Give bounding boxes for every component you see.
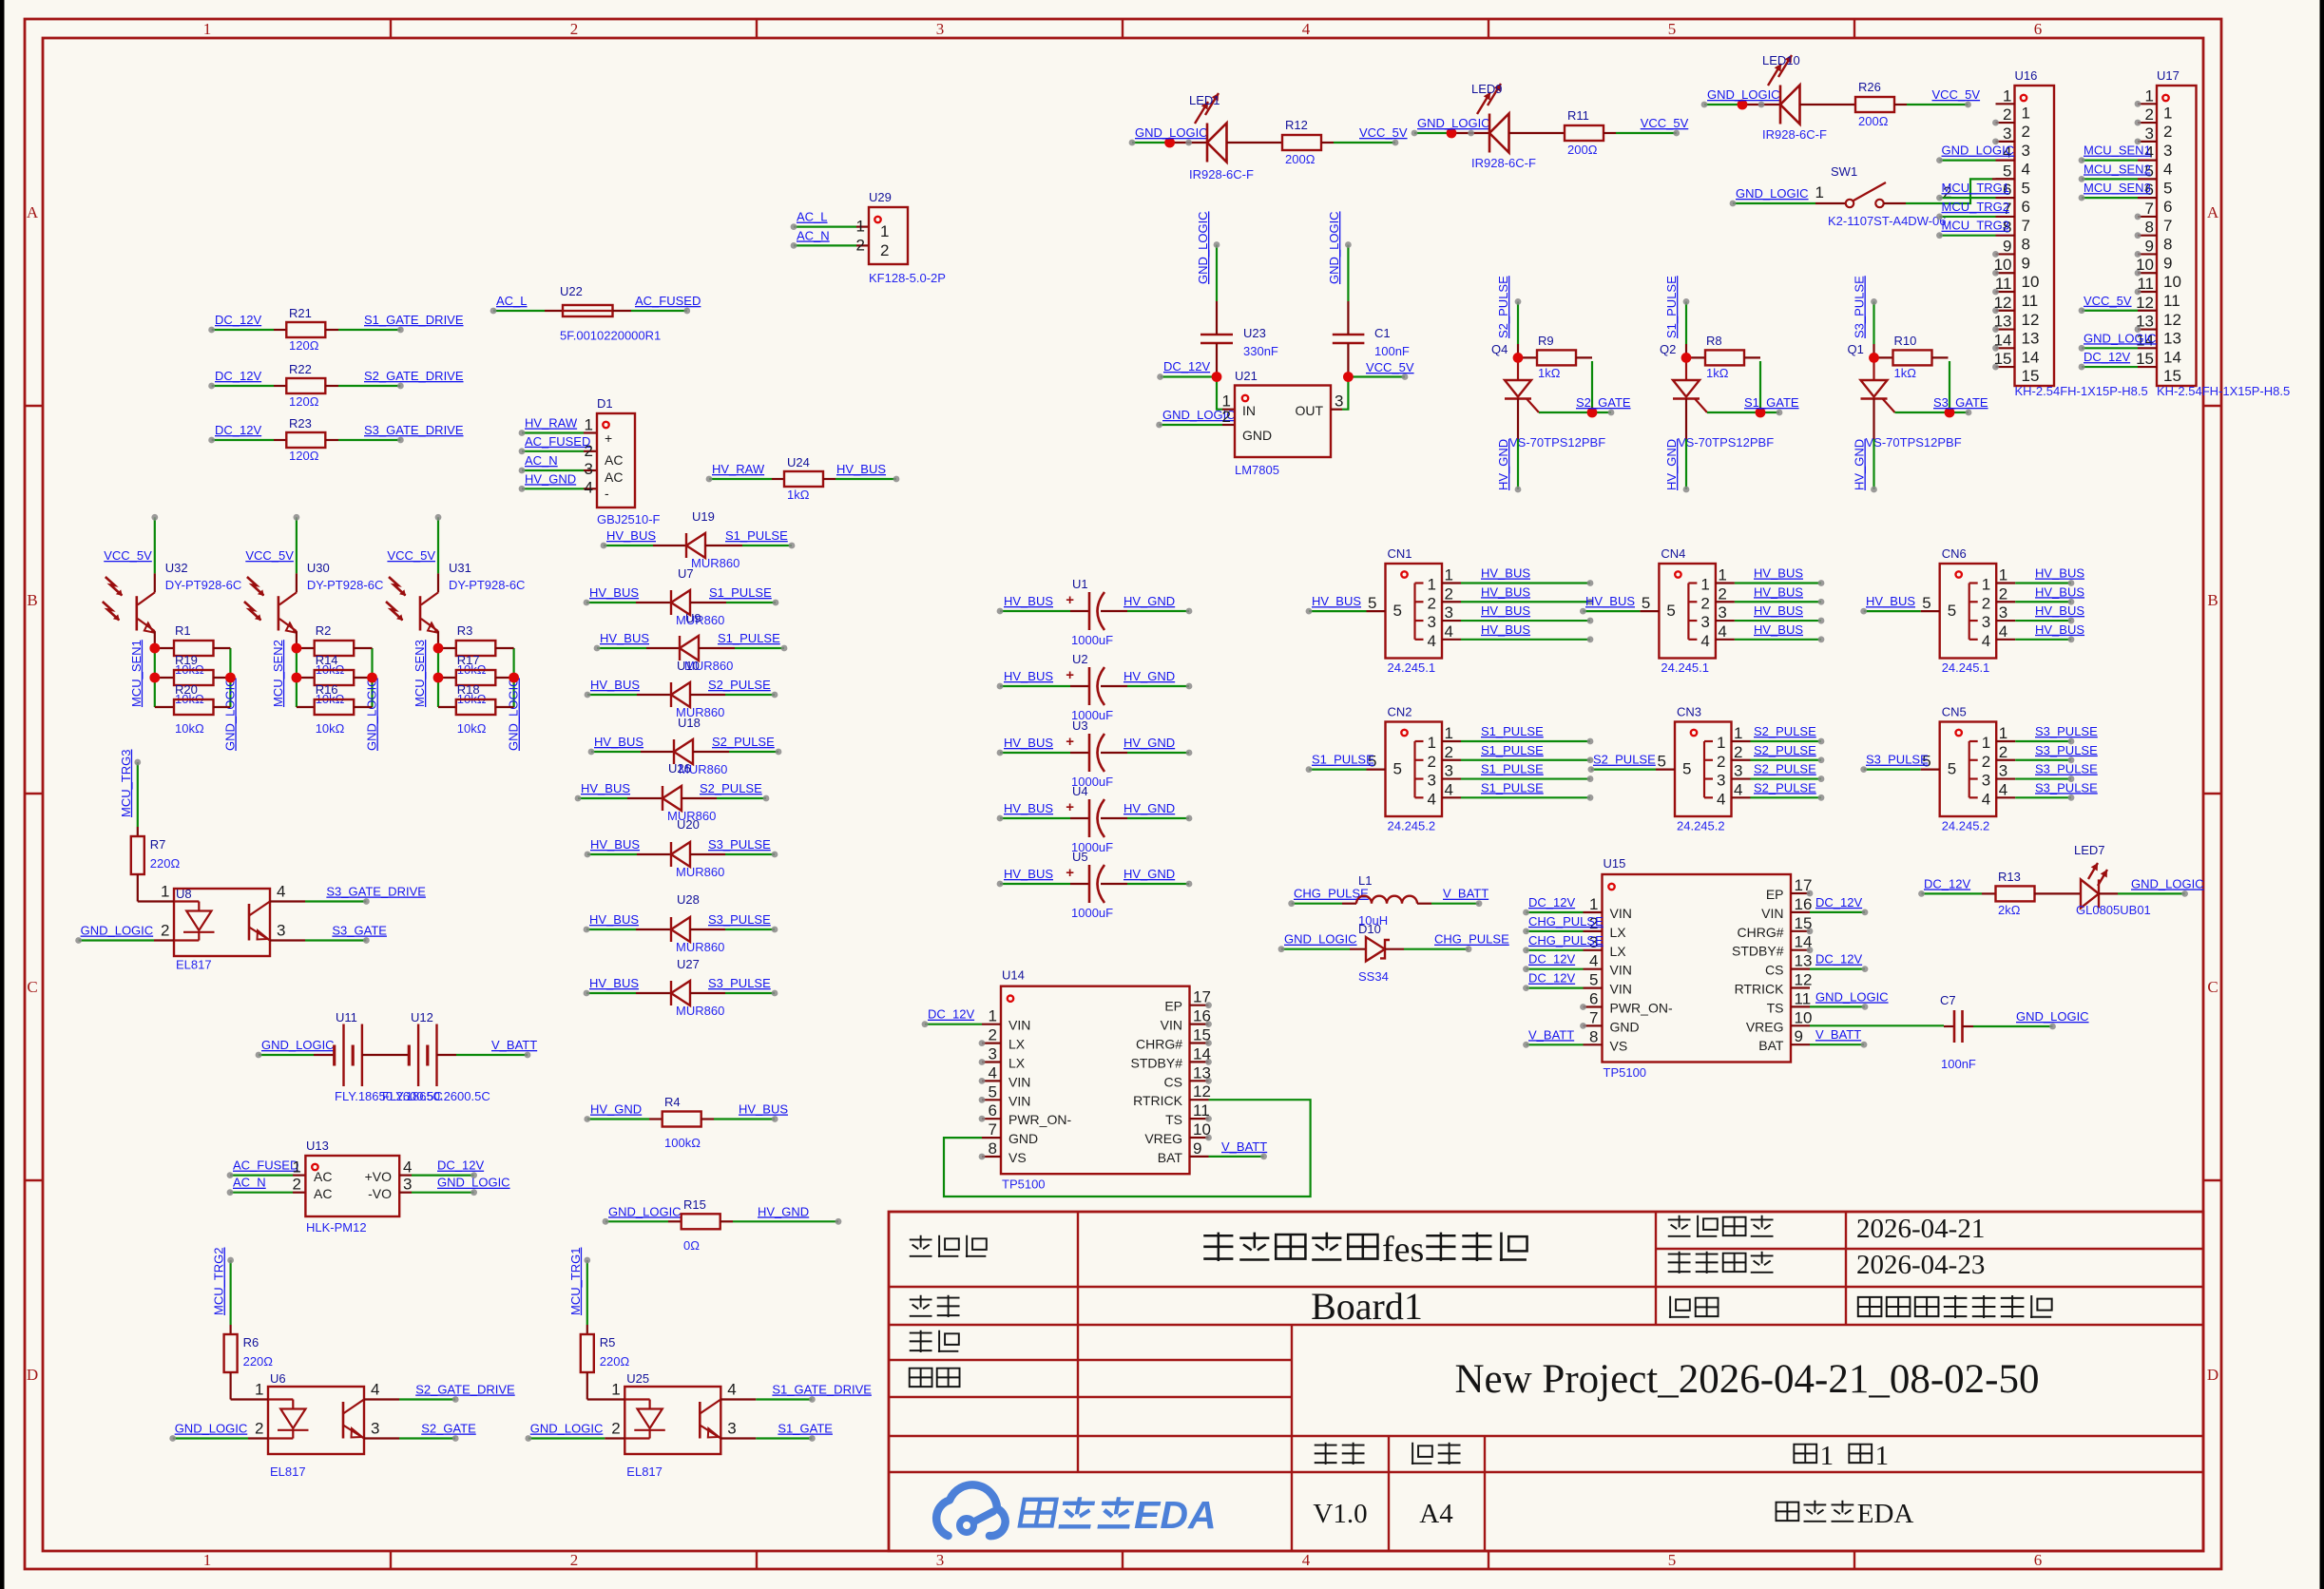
diode U28 [671, 892, 724, 954]
wire CN1 pin 1 to HV_BUS [1461, 580, 1593, 586]
pin 16 stub [1190, 1023, 1209, 1024]
svg-text:GND_LOGIC: GND_LOGIC [365, 678, 379, 751]
svg-text:HV_GND: HV_GND [525, 471, 576, 486]
svg-text:HV_BUS: HV_BUS [589, 585, 639, 600]
junction MCU_SEN2 at R14 [292, 673, 302, 683]
svg-text:GND_LOGIC: GND_LOGIC [2131, 876, 2204, 890]
svg-text:KH-2.54FH-1X15P-H8.5: KH-2.54FH-1X15P-H8.5 [2157, 384, 2290, 398]
svg-text:U7: U7 [678, 566, 694, 581]
svg-text:220Ω: 220Ω [150, 856, 181, 871]
svg-text:V1.0: V1.0 [1313, 1499, 1367, 1529]
svg-text:3: 3 [2145, 124, 2154, 143]
AC-DC module U13 HLK-PM12 [293, 1139, 413, 1235]
junction MCU_SEN1 at R1 [149, 643, 160, 654]
svg-text:R22: R22 [289, 362, 312, 376]
wire DC_12V to U14 pin 1 [922, 1021, 982, 1027]
svg-text:4: 4 [2022, 161, 2030, 179]
pin 3 stub [1442, 620, 1461, 622]
wire GND_LOGIC to SW1 pin 1 [1730, 201, 1845, 207]
svg-text:3: 3 [277, 922, 285, 940]
svg-text:DC_12V: DC_12V [1528, 952, 1575, 967]
logo JLCEDA text [1020, 1500, 1056, 1526]
pin 12 stub [1996, 310, 2015, 312]
wire U27 to S3_PULSE [690, 990, 778, 997]
svg-text:12: 12 [2022, 311, 2040, 329]
svg-text:CHG_PULSE: CHG_PULSE [1528, 914, 1604, 929]
svg-text:GND_LOGIC: GND_LOGIC [1942, 144, 2015, 158]
pin 2 stub [1996, 601, 2015, 603]
svg-text:TP5100: TP5100 [1002, 1177, 1046, 1192]
wire DC_12V node into U21 pin 1 [1157, 364, 1235, 410]
svg-text:24.245.2: 24.245.2 [1677, 819, 1725, 833]
svg-text:5: 5 [1668, 1551, 1677, 1569]
wire DC_12V to R21 [208, 327, 286, 334]
svg-text:3: 3 [727, 1420, 736, 1438]
wire GND_LOGIC bus [229, 648, 231, 707]
svg-text:3: 3 [1982, 613, 1990, 631]
svg-text:STDBY#: STDBY# [1732, 944, 1784, 959]
connector CN5 24.245.2 [1921, 705, 2016, 833]
wire HV_BUS to U3 [997, 750, 1089, 756]
svg-text:10: 10 [2022, 273, 2040, 291]
title block grid [889, 1212, 2203, 1551]
svg-text:3: 3 [1717, 772, 1725, 790]
svg-text:1: 1 [1445, 566, 1453, 584]
svg-text:13: 13 [1193, 1063, 1211, 1082]
battery U11 FLY.18650.2600.5C [335, 1010, 443, 1103]
svg-text:S2_PULSE: S2_PULSE [1754, 743, 1816, 757]
wire U14 pin 7 GND loop to pin 12 RTRICK [944, 1100, 1311, 1197]
svg-text:GL0805UB01: GL0805UB01 [2076, 903, 2151, 917]
pin 5 stub [1640, 610, 1659, 612]
svg-text:U2: U2 [1072, 652, 1088, 666]
svg-text:HV_BUS: HV_BUS [589, 976, 639, 990]
wire R11 to VCC_5V [1604, 130, 1680, 137]
svg-text:DC_12V: DC_12V [215, 369, 261, 383]
wire R12 to VCC_5V [1321, 140, 1398, 146]
wire HV_BUS to U20 [585, 852, 671, 858]
resistor R19 10k [155, 653, 231, 706]
svg-text:4: 4 [1700, 632, 1709, 650]
svg-text:EL817: EL817 [626, 1465, 663, 1479]
resistor R5 220 [581, 1334, 630, 1372]
svg-text:AC_FUSED: AC_FUSED [233, 1158, 298, 1173]
svg-text:12: 12 [1193, 1082, 1211, 1101]
svg-text:LX: LX [1610, 925, 1627, 940]
svg-text:R26: R26 [1858, 80, 1881, 94]
svg-text:EL817: EL817 [270, 1465, 306, 1479]
svg-text:V_BATT: V_BATT [1221, 1139, 1267, 1154]
diode U27 [671, 957, 724, 1018]
svg-text:5: 5 [2163, 179, 2172, 197]
svg-text:LED1: LED1 [1189, 93, 1220, 107]
svg-text:2: 2 [1982, 594, 1990, 612]
svg-text:6: 6 [1589, 990, 1598, 1008]
pin 7 stub [2138, 216, 2157, 218]
svg-text:1: 1 [2163, 104, 2172, 122]
svg-text:VIN: VIN [1610, 963, 1632, 978]
svg-text:S3_PULSE: S3_PULSE [2035, 762, 2098, 776]
svg-text:S1_PULSE: S1_PULSE [1312, 753, 1374, 767]
wire VCC_5V to U17 pin 12 [2079, 307, 2138, 314]
svg-text:11: 11 [2163, 292, 2180, 310]
svg-text:HV_BUS: HV_BUS [1481, 603, 1530, 618]
wire U6 pin 4 to S2_GATE_DRIVE [364, 1396, 459, 1403]
wire R13 to LED7 [2034, 892, 2081, 894]
svg-text:100kΩ: 100kΩ [664, 1136, 701, 1150]
wire U3 to HV_GND [1101, 750, 1192, 756]
svg-text:U16: U16 [2015, 68, 2038, 83]
resistor R18 10k [438, 682, 514, 736]
title block label version [1315, 1443, 1337, 1465]
svg-text:U32: U32 [165, 561, 188, 575]
svg-text:2: 2 [1428, 753, 1436, 771]
junction S3_PULSE at Q1 [1869, 353, 1879, 363]
svg-text:U31: U31 [449, 561, 471, 575]
wire DC_12V to U17 pin 15 [2079, 364, 2138, 371]
junction GND_LOGIC [1447, 128, 1457, 139]
svg-text:VCC_5V: VCC_5V [1932, 87, 1981, 102]
wire U22 to AC_FUSED [613, 308, 691, 315]
svg-text:3: 3 [936, 1551, 945, 1569]
svg-text:5: 5 [1642, 594, 1650, 612]
wire HV_BUS to U18 [588, 749, 674, 756]
title block label board [910, 1295, 932, 1316]
svg-text:OUT: OUT [1295, 403, 1323, 418]
pin 13 stub [1996, 328, 2015, 330]
svg-text:U21: U21 [1235, 369, 1258, 383]
pin 16 stub [1791, 911, 1810, 913]
resistor R11 200 [1565, 108, 1604, 157]
capacitor U2 polarized 1000uF [1066, 652, 1113, 722]
svg-text:HV_RAW: HV_RAW [525, 416, 578, 431]
wire CN3 pin 2 to S2_PULSE [1751, 756, 1825, 763]
svg-text:RTRICK: RTRICK [1133, 1093, 1183, 1108]
wire GND_LOGIC to LED10 [1701, 102, 1780, 108]
svg-text:14: 14 [1994, 331, 2012, 349]
svg-text:24.245.1: 24.245.1 [1661, 660, 1709, 675]
svg-text:2: 2 [1445, 743, 1453, 761]
svg-text:GND: GND [1008, 1131, 1038, 1146]
pin 1 stub [1716, 582, 1735, 584]
svg-text:DC_12V: DC_12V [215, 313, 261, 327]
wire VCC_5V to U30 [294, 514, 300, 574]
svg-text:S2_PULSE: S2_PULSE [708, 678, 771, 692]
wire R6 to optocoupler pin 1 [231, 1372, 268, 1400]
wire GND_LOGIC to LED1 [1129, 140, 1207, 146]
svg-text:K2-1107ST-A4DW-06: K2-1107ST-A4DW-06 [1828, 214, 1947, 228]
svg-text:2: 2 [1222, 408, 1231, 426]
svg-text:8: 8 [2163, 236, 2172, 254]
pin 3 stub [1442, 777, 1461, 779]
svg-text:5: 5 [1668, 20, 1677, 38]
svg-text:V_BATT: V_BATT [1443, 887, 1489, 901]
svg-text:AC_N: AC_N [797, 228, 830, 242]
svg-text:4: 4 [1445, 780, 1453, 798]
wire AC_N to D1 pin 3 [519, 468, 597, 474]
pin 11 stub [1996, 291, 2015, 293]
svg-text:10: 10 [1795, 1008, 1813, 1026]
svg-text:DC_12V: DC_12V [1924, 876, 1970, 890]
svg-text:U25: U25 [626, 1371, 649, 1386]
svg-text:R17: R17 [457, 653, 480, 667]
svg-text:VIN: VIN [1008, 1018, 1030, 1033]
column numbers [203, 20, 2043, 1569]
svg-text:MCU_SEN2: MCU_SEN2 [271, 640, 285, 707]
svg-text:C: C [27, 978, 37, 996]
junction GND_LOGIC [509, 673, 519, 683]
svg-text:S2_PULSE: S2_PULSE [1593, 753, 1656, 767]
svg-text:HV_BUS: HV_BUS [2035, 622, 2084, 637]
svg-text:MUR860: MUR860 [691, 556, 739, 570]
svg-text:HV_BUS: HV_BUS [1754, 603, 1803, 618]
pin 2 stub [2138, 122, 2157, 124]
wire U15 pin 9 to V_BATT [1810, 1042, 1867, 1048]
svg-text:U20: U20 [677, 817, 700, 832]
wire U12 to V_BATT [437, 1052, 531, 1059]
svg-text:GND_LOGIC: GND_LOGIC [261, 1038, 335, 1052]
wire DC_12V to R23 [208, 437, 286, 444]
svg-text:MUR860: MUR860 [676, 940, 724, 954]
pin 8 stub [2138, 235, 2157, 237]
resistor R9 1k [1518, 334, 1592, 380]
wire AC_L to U29 pin 1 [791, 223, 869, 230]
svg-text:6: 6 [2034, 1551, 2043, 1569]
svg-text:HV_BUS: HV_BUS [600, 631, 649, 645]
resistor R26 200 [1855, 80, 1894, 128]
pin 1 stub [1996, 103, 2015, 105]
svg-text:5: 5 [989, 1082, 997, 1101]
svg-text:HV_GND: HV_GND [1124, 669, 1175, 683]
pin 1 stub [1732, 740, 1751, 742]
wire R8 to S1_GATE [1707, 361, 1782, 415]
wire D10 to CHG_PULSE [1385, 946, 1471, 952]
wire HV_BUS to U1 [997, 608, 1089, 615]
capacitor C1 100nF [1333, 326, 1410, 377]
connector U29 [856, 190, 946, 285]
svg-text:HV_BUS: HV_BUS [1754, 566, 1803, 581]
svg-text:4: 4 [1428, 632, 1436, 650]
wire CN5 pin 2 to S3_PULSE [2015, 756, 2074, 763]
pin 3 stub [1996, 141, 2015, 143]
svg-text:15: 15 [2163, 367, 2181, 385]
wire R10 to S3_GATE [1895, 361, 1972, 415]
svg-text:TS: TS [1165, 1112, 1182, 1127]
svg-text:U4: U4 [1072, 784, 1088, 798]
wire U21 pin 3 to VCC_5V node [1331, 377, 1348, 410]
pin 6 stub [1584, 1005, 1603, 1007]
wire U18 to S2_PULSE [693, 749, 781, 756]
svg-text:R9: R9 [1538, 334, 1554, 348]
wire MCU_SEN3 bus [437, 648, 439, 707]
wire U15 pin 11 to GND_LOGIC [1810, 1004, 1868, 1010]
svg-text:S3_PULSE: S3_PULSE [708, 912, 771, 927]
svg-text:HV_GND: HV_GND [590, 1102, 642, 1117]
pin 1 stub [1442, 740, 1461, 742]
svg-text:S2_GATE_DRIVE: S2_GATE_DRIVE [364, 369, 464, 383]
svg-text:1kΩ: 1kΩ [1894, 366, 1917, 380]
pin 15 stub [1996, 366, 2015, 368]
wire AC_N to U29 pin 2 [791, 242, 869, 249]
svg-text:HV_BUS: HV_BUS [836, 462, 886, 476]
svg-text:1: 1 [1717, 734, 1725, 752]
svg-text:+: + [1066, 865, 1074, 881]
svg-text:2: 2 [611, 1420, 620, 1438]
wire R22 to S2_GATE_DRIVE [325, 383, 404, 390]
svg-text:1: 1 [1875, 1441, 1890, 1471]
svg-text:9: 9 [2022, 254, 2030, 272]
svg-text:GND_LOGIC: GND_LOGIC [1417, 116, 1490, 130]
junction S2_GATE [1587, 408, 1598, 418]
wire U25 pin 3 to S1_GATE [720, 1435, 816, 1442]
wire GND_LOGIC to R15 [603, 1218, 682, 1225]
svg-text:3: 3 [1734, 762, 1742, 780]
pin 7 stub [1996, 216, 2015, 218]
svg-text:LX: LX [1008, 1037, 1026, 1052]
wire MCU_TRG2 to R6 [227, 1257, 234, 1334]
svg-text:8: 8 [2145, 219, 2154, 237]
wire AC_FUSED to D1 pin 2 [519, 448, 597, 454]
wire GND_LOGIC to C1 [1345, 241, 1352, 326]
svg-text:GND_LOGIC: GND_LOGIC [1707, 87, 1780, 102]
wire CN4 pin 4 to HV_BUS [1735, 636, 1825, 642]
svg-text:HV_BUS: HV_BUS [590, 678, 640, 692]
svg-text:5: 5 [1682, 760, 1691, 778]
pin 3 stub [1996, 620, 2015, 622]
diode D10 SS34 [1358, 922, 1390, 984]
wire U19 to S1_PULSE [705, 543, 795, 549]
bridge rectifier D1 [585, 396, 661, 526]
junction GND_LOGIC [367, 673, 377, 683]
svg-text:10: 10 [1193, 1120, 1211, 1139]
pin 2 stub [1442, 601, 1461, 603]
svg-text:3: 3 [1700, 613, 1709, 631]
svg-text:4: 4 [1999, 622, 2007, 641]
svg-text:HV_GND: HV_GND [758, 1204, 809, 1218]
svg-text:5: 5 [1666, 602, 1675, 620]
wire GND_LOGIC to U8 pin 2 [75, 937, 174, 944]
junction S1_PULSE at Q2 [1681, 353, 1692, 363]
capacitor C7 100nF [1940, 993, 1976, 1071]
thyristor Q2 VS-70TPS12PBF [1660, 342, 1774, 450]
svg-text:4: 4 [1302, 1551, 1311, 1569]
svg-text:LED10: LED10 [1762, 53, 1800, 67]
wire DC_12V to R22 [208, 383, 286, 390]
pin 5 stub [1367, 610, 1386, 612]
wire U6 pin 3 to S2_GATE [364, 1435, 459, 1442]
svg-text:17: 17 [1795, 876, 1813, 894]
svg-text:220Ω: 220Ω [243, 1354, 274, 1369]
svg-text:DC_12V: DC_12V [928, 1007, 974, 1022]
battery U12 FLY.18650.2600.5C [382, 1010, 490, 1103]
wire MCU_TRG2 to U16 pin 7 [1936, 214, 1995, 220]
wire CN6 pin 2 to HV_BUS [2015, 599, 2074, 605]
svg-text:9: 9 [2163, 254, 2172, 272]
diode U10 [671, 659, 724, 719]
wire CN3 pin 1 to S2_PULSE [1751, 738, 1825, 745]
svg-text:AC: AC [314, 1186, 332, 1201]
svg-text:C7: C7 [1940, 993, 1956, 1007]
wire AC_L to U22 [490, 308, 563, 315]
wire S2_PULSE to Q4 [1515, 298, 1522, 357]
svg-text:7: 7 [2145, 200, 2154, 218]
svg-text:EDA: EDA [1134, 1493, 1217, 1537]
svg-text:U19: U19 [692, 509, 715, 524]
svg-text:24.245.2: 24.245.2 [1942, 819, 1990, 833]
svg-text:3: 3 [1718, 603, 1726, 622]
svg-text:DC_12V: DC_12V [437, 1158, 484, 1173]
svg-text:8: 8 [989, 1139, 997, 1158]
wire MCU_SEN3 to U17 pin 6 [2079, 195, 2138, 201]
wire U5 to HV_GND [1101, 881, 1192, 888]
svg-text:5: 5 [1948, 602, 1956, 620]
svg-text:TS: TS [1767, 1000, 1784, 1015]
title block sheet page value [1858, 1297, 1882, 1316]
pin 10 stub [2138, 272, 2157, 274]
svg-text:EP: EP [1164, 999, 1182, 1014]
svg-text:2: 2 [1734, 743, 1742, 761]
pin 10 stub [1791, 1024, 1810, 1026]
svg-text:12: 12 [2136, 294, 2154, 312]
svg-text:S2_PULSE: S2_PULSE [712, 735, 775, 749]
optocoupler U6 EL817 [255, 1371, 379, 1479]
svg-text:U18: U18 [678, 716, 701, 730]
svg-text:LM7805: LM7805 [1235, 463, 1279, 477]
pin 3 stub [982, 1061, 1001, 1063]
wire CN2 pin 3 to S1_PULSE [1461, 775, 1593, 782]
svg-text:FLY.18650.2600.5C: FLY.18650.2600.5C [382, 1089, 490, 1103]
svg-text:LED7: LED7 [2074, 843, 2105, 857]
svg-text:S3_PULSE: S3_PULSE [2035, 743, 2098, 757]
svg-text:2: 2 [161, 922, 169, 940]
wire GND_LOGIC to U21 pin 2 [1156, 422, 1235, 429]
svg-text:CN3: CN3 [1677, 705, 1701, 719]
wire MCU_SEN2 to U17 pin 5 [2079, 176, 2138, 182]
svg-text:S1_GATE_DRIVE: S1_GATE_DRIVE [772, 1383, 872, 1397]
svg-text:1kΩ: 1kΩ [787, 488, 810, 502]
svg-text:HV_BUS: HV_BUS [589, 912, 639, 927]
svg-text:3: 3 [2003, 124, 2011, 143]
svg-text:VCC_5V: VCC_5V [1366, 360, 1414, 374]
title block label drawn by [910, 1331, 932, 1352]
svg-text:VCC_5V: VCC_5V [387, 548, 435, 563]
title block label size [1412, 1443, 1432, 1465]
svg-text:2: 2 [2145, 105, 2154, 124]
svg-text:120Ω: 120Ω [289, 449, 319, 463]
svg-text:VS: VS [1008, 1150, 1027, 1165]
svg-text:VCC_5V: VCC_5V [1641, 116, 1689, 130]
wire U8 pin 4 to S3_GATE_DRIVE [270, 898, 370, 905]
svg-text:MCU_TRG1: MCU_TRG1 [568, 1247, 583, 1315]
svg-text:1: 1 [880, 222, 889, 240]
svg-text:VREG: VREG [1746, 1019, 1784, 1034]
svg-text:C1: C1 [1374, 326, 1391, 340]
svg-text:HV_BUS: HV_BUS [739, 1102, 788, 1117]
svg-text:9: 9 [1795, 1027, 1803, 1045]
diode U9 [680, 611, 733, 673]
svg-text:1000uF: 1000uF [1071, 633, 1113, 647]
svg-text:MCU_SEN3: MCU_SEN3 [413, 640, 427, 707]
svg-text:S2_PULSE: S2_PULSE [700, 781, 762, 795]
svg-text:S1_PULSE: S1_PULSE [1481, 762, 1544, 776]
resistor R22 [286, 362, 325, 409]
svg-text:3: 3 [1428, 613, 1436, 631]
svg-text:4: 4 [1428, 790, 1436, 808]
svg-text:200Ω: 200Ω [1858, 114, 1889, 128]
junction S1_GATE [1756, 408, 1766, 418]
wire HV_BUS to U7 [584, 600, 671, 606]
svg-text:+: + [605, 431, 612, 446]
